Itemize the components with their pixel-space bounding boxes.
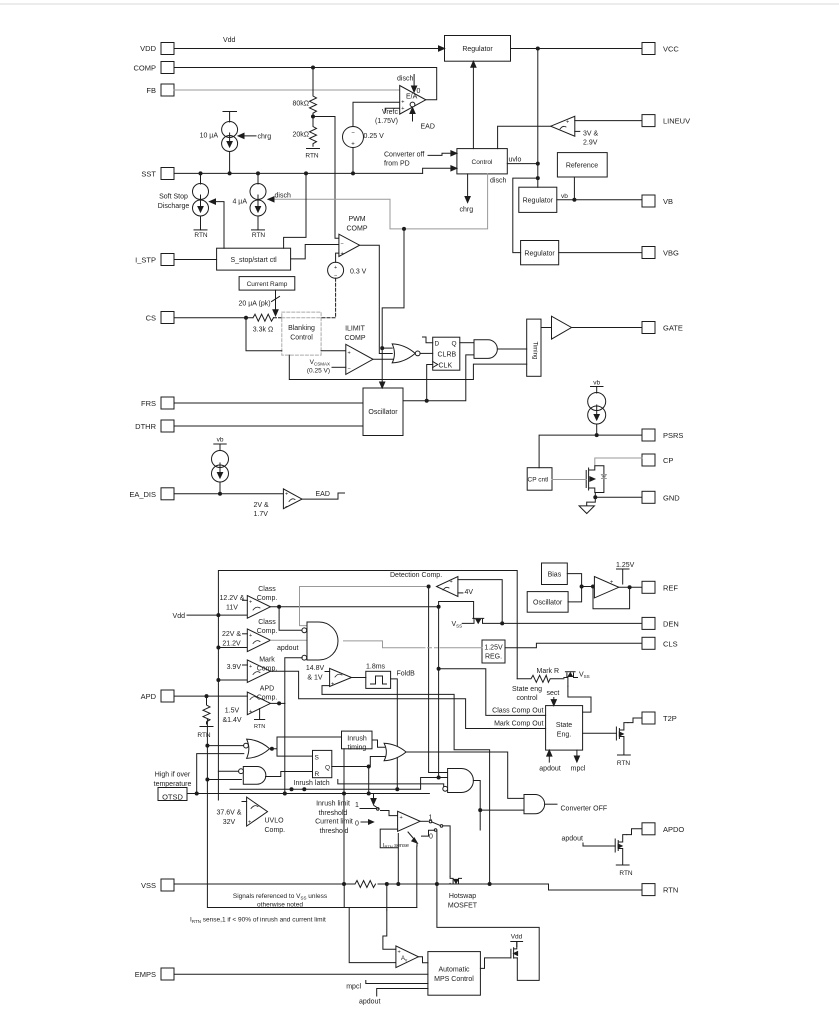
wire FB pin to E/A inverting input (gray) [174,89,403,91]
supply vb bar above PSRS source [591,387,604,394]
wire COMP net: pin to corner to E/A output [174,68,437,100]
svg-text:RTN: RTN [197,732,211,739]
pin RTN [642,884,655,896]
svg-text:4V: 4V [465,589,474,596]
wire rail to class comp 2 input [218,647,247,649]
svg-text:0.3 V: 0.3 V [350,269,367,276]
comparator Class Comp 1 [243,596,271,619]
wire switch to hotswap gate [443,826,450,877]
gate inrush AND B [239,767,266,785]
wire disch branch down to NOR and oscillator [380,229,404,388]
svg-text:Blanking: Blanking [288,325,315,332]
svg-text:VSS: VSS [141,881,156,890]
diode body (gray) [602,475,607,479]
node OTSD junction [195,792,371,796]
block S_stop/start ctl [217,248,291,270]
svg-text:+: + [249,633,252,639]
gate NOR (PWM/ILIMIT/disch) [392,344,420,363]
wire 0.25V bottom to SST line [352,148,354,174]
svg-text:Vrefc: Vrefc [382,109,399,116]
transistor APDO [615,835,629,865]
wire uvlo Control to internal rail [507,163,538,165]
svg-text:11V: 11V [226,605,238,612]
svg-text:COMP: COMP [134,64,157,73]
wire blanking bottom to timing path [289,355,526,379]
svg-text:Control: Control [290,335,313,342]
wire selected threshold to comparator [381,811,398,816]
node hotswap junction [488,882,492,886]
svg-text:mpcl: mpcl [571,766,586,773]
svg-text:+: + [249,709,252,715]
svg-text:+: + [566,120,569,126]
wire driver to GATE pin [572,327,643,329]
svg-text:VB: VB [663,197,673,206]
svg-text:Comp.: Comp. [257,595,278,602]
svg-text:Regulator: Regulator [462,46,493,53]
block Oscillator [363,388,403,436]
svg-text:Converter off: Converter off [384,152,424,159]
wire S_stop ctl to soft stop discharge arrow [210,199,225,248]
node REF input junctions [580,585,595,589]
wire rail to Regulator VBG [513,178,538,253]
comparator PWM COMP [339,234,360,257]
svg-text:VCC: VCC [663,45,679,54]
block State Eng [546,706,583,751]
wire threshold select arrow [371,794,379,809]
svg-text:OTSD: OTSD [162,793,183,802]
block Automatic MPS Control [428,952,481,996]
svg-text:CLK: CLK [439,362,453,369]
op-amp E/A [400,86,426,115]
pin CLS [642,637,655,649]
svg-text:Timing: Timing [532,342,538,360]
wire sect transistor to state eng [568,686,591,712]
pin GND [642,491,655,503]
pin APD [161,690,174,702]
svg-text:2.9V: 2.9V [583,140,598,147]
wire VCSMAX label tick to ILIMIT minus [332,366,346,368]
resistor Mark R [517,675,564,682]
svg-text:apdout: apdout [359,999,380,1006]
wire rail to mark comp input [218,679,247,681]
wire 3.3k to blanking control dashed [274,317,322,319]
block Oscillator2 wire to REF buffer [568,587,582,602]
wire chrg arrow below Control [465,174,470,203]
svg-text:+: + [400,815,403,821]
svg-text:Comp.: Comp. [265,827,286,834]
svg-text:COMP: COMP [347,226,368,233]
wire inrush latch Q to OR C [332,757,385,767]
svg-text:22V &: 22V & [222,631,241,638]
svg-text:UVLO: UVLO [265,818,285,825]
node rail junctions [536,162,540,181]
node Vdd rail junctions [216,613,220,682]
block Current Ramp [239,277,295,291]
wire divider mid to PWM comp inverting input [313,117,339,239]
svg-text:1.25V: 1.25V [616,562,635,569]
wire row to AND D bubble [338,780,444,789]
svg-text:21.2V: 21.2V [222,641,241,648]
transistor CP mosfet [586,466,604,493]
svg-text:& 1V: & 1V [307,675,323,682]
voltage source 0.25V [343,127,364,148]
wire MPS sense input 1 [383,910,396,949]
wire PWM comp output down to NOR middle input [360,245,393,353]
wire class1 node down to AND gate [439,607,448,778]
wire class comp out to state eng [439,669,546,716]
pin VB [642,195,655,207]
node Q junction [367,765,371,769]
svg-text:S_stop/start ctl: S_stop/start ctl [230,257,277,264]
svg-text:APD: APD [260,686,274,693]
svg-text:+: + [285,492,288,498]
svg-text:from PD: from PD [384,161,410,168]
wire EA_DIS pin to comparator [174,493,283,495]
current source vb/PSRS [588,393,606,436]
svg-text:Current limit: Current limit [315,819,353,826]
svg-text:Mark: Mark [259,657,275,664]
svg-text:Q: Q [325,765,330,772]
node VSS junctions [342,882,439,886]
wire to REF amp [582,586,595,588]
svg-text:−: − [285,504,288,510]
svg-text:temperature: temperature [154,781,192,788]
wire Regulator VB to VB pin [557,199,642,201]
wire apdout label to APDO gate [583,843,615,846]
current source EA_DIS pullup [212,451,229,494]
node oscillator/CLK junction [425,399,429,403]
svg-text:Vdd: Vdd [511,934,523,941]
svg-text:disch: disch [275,193,291,200]
svg-text:chrg: chrg [258,134,272,141]
transistor Vss detection switch [462,618,502,623]
wire DTHR to oscillator [174,425,363,427]
node GND junction [593,495,597,499]
node APD junction [205,694,209,698]
pin FB [161,84,174,96]
svg-text:sect: sect [547,690,560,697]
wire Blanking Control to ILIMIT comp plus [321,350,346,352]
block Regulator U1 [445,36,511,62]
wire SST line [174,172,423,174]
wire left rail 2 down to note line [207,720,416,908]
wire AND D node down [479,810,481,830]
svg-text:Vdd: Vdd [173,613,186,620]
wire OR C output to converter off gate [406,752,524,798]
wire EAD output [302,493,345,499]
wire current limit 0 leg to VSS [436,831,438,884]
svg-text:+: + [341,251,344,257]
wire AND D output down to converter off [473,781,524,811]
svg-text:EAD: EAD [421,124,435,131]
resistor 3.3k [253,314,273,321]
block Oscillator 2 [527,592,568,613]
svg-text:Eng.: Eng. [557,732,571,739]
svg-text:Bias: Bias [548,572,562,579]
wire 0.25V top to E/A plus input [353,102,400,126]
svg-text:IRTN sense,1 if < 90% of inrus: IRTN sense,1 if < 90% of inrush and curr… [190,917,326,925]
node junction VCC/internal rail [536,47,540,51]
latch D/CLRB/CLK [433,337,460,370]
svg-text:APD: APD [141,692,157,701]
svg-text:CLS: CLS [663,639,678,648]
node PSRS junction [595,433,599,437]
svg-text:Converter OFF: Converter OFF [561,806,608,813]
svg-text:FRS: FRS [141,399,156,408]
node AND D out junction [478,808,482,812]
svg-text:APDO: APDO [663,825,684,834]
wire current limit 0 line [361,820,374,824]
svg-text:+: + [334,265,337,271]
svg-text:+: + [610,580,613,586]
svg-text:Regulator: Regulator [523,198,554,205]
block Control [457,149,507,174]
comparator APD Comp [247,692,270,715]
pin VSS [161,879,174,891]
svg-text:vb: vb [561,193,568,200]
comparator UVLO [242,797,268,826]
wire APD pin to APD comp [174,695,247,697]
pin GATE [642,322,655,334]
wire disch arrow into E/A top [412,75,417,93]
svg-text:+: + [351,142,355,148]
node rail2 junctions [205,744,209,782]
svg-text:control: control [516,695,537,702]
svg-text:1: 1 [429,815,433,822]
svg-text:Control: Control [472,159,494,166]
svg-text:+: + [450,579,453,585]
wire converter off output [545,803,557,805]
svg-text:FB: FB [146,86,156,95]
wire REF amp to REF pin [619,586,642,588]
ENDSTOP [129,37,690,979]
ground symbol [579,497,595,513]
node class1/row junction [437,776,441,780]
svg-text:FoldB: FoldB [397,671,416,678]
op-amp REF buffer [594,577,618,598]
node disch/NOR junction [380,346,384,350]
wire switch 0 tick [422,829,437,836]
page top border [0,3,839,5]
wire state eng to T2P transistor gate [583,732,617,734]
wire SST to Control input arrow [423,166,457,174]
gate class AND (4 input) [302,622,338,660]
svg-text:+: + [249,600,252,606]
pin DTHR [161,420,174,432]
svg-text:10 µA: 10 µA [200,133,219,140]
wire Reference to vb node [573,177,575,200]
buffer gate driver [552,316,572,339]
wire apdout input [377,989,428,997]
svg-text:Mark R: Mark R [537,668,560,675]
svg-text:CP cntl: CP cntl [528,477,549,484]
supply vb bar above EA_DIS source [214,444,226,451]
wire 3V threshold tick [575,130,580,132]
svg-text:4 µA: 4 µA [232,199,247,206]
svg-text:apdout: apdout [562,836,583,843]
wire PSRS net [539,435,642,468]
svg-text:GND: GND [663,493,680,502]
svg-text:Comp.: Comp. [257,695,278,702]
wire T2P drain to T2P pin [628,718,642,723]
svg-text:1.25V: 1.25V [484,645,503,652]
wire inrush timing to OR C [372,740,385,747]
pin EMPS [161,968,174,980]
wire Av output to MPS control [418,957,428,963]
svg-text:timing: timing [348,745,367,752]
node OR A output [270,747,274,751]
wire Current Ramp arrow to CS [272,290,280,316]
svg-text:D: D [435,341,440,348]
current source 4uA disch [250,173,266,230]
wire detection comp output to class gate (gray) [300,587,429,626]
wire MPS loop from VSS to Vdd switch source [437,884,539,980]
wire APD comp output [270,702,284,704]
resistor VSS sense [355,881,375,888]
ground RTN below APD comp [255,709,265,720]
comparator LINEUV [551,116,575,136]
gate AND D [443,769,474,793]
wire detection plus input to Vss switch [458,580,502,624]
svg-text:Detection Comp.: Detection Comp. [390,572,442,579]
svg-text:37.6V &: 37.6V & [217,810,242,817]
svg-text:20 µA (pk): 20 µA (pk) [239,301,271,308]
svg-text:VDD: VDD [140,44,156,53]
svg-text:IRTN sense: IRTN sense [383,843,409,849]
block Bias [542,563,568,585]
wire Timing to gate driver [541,327,552,329]
wire OR A to latch S [277,749,313,756]
svg-text:Class: Class [258,586,276,593]
voltage source 0.3V [328,262,344,279]
pin EA_DIS [161,488,174,500]
wire class1 node to Vss switch gate [439,602,474,619]
node FoldB junction [395,787,399,791]
wire AND B output to inrush latch R [266,772,313,777]
svg-text:Class Comp Out: Class Comp Out [492,707,543,714]
svg-text:(0.25 V): (0.25 V) [307,368,330,375]
pin SST [161,168,174,180]
svg-text:State eng: State eng [512,686,542,693]
svg-text:0: 0 [355,821,359,828]
wire MPS control to Vdd switch gate [480,958,511,969]
svg-text:Hotswap: Hotswap [449,893,476,900]
svg-text:EMPS: EMPS [135,970,156,979]
svg-text:apdout: apdout [277,645,298,652]
transistor Hotswap MOSFET [450,876,461,884]
node SST junctions [199,171,356,175]
svg-text:Regulator: Regulator [524,251,555,258]
gate Converter OFF AND [524,795,545,814]
wire Regulator to VCC pin [511,48,643,50]
transistor T2P [616,723,630,755]
svg-text:12.2V &: 12.2V & [220,595,245,602]
resistor 80k [310,68,317,117]
svg-text:Inrush limit: Inrush limit [316,801,350,808]
wire LINEUV pin to comparator [575,120,642,122]
svg-text:vb: vb [217,437,224,444]
svg-text:DEN: DEN [663,619,679,628]
wire to converter off rail [322,694,490,884]
wire sense riser [416,846,418,908]
wire FoldB output down [391,679,398,789]
wire Converter off from PD arrow into Control [428,151,457,156]
wire Vdd VDD pin to Regulator with arrow [174,46,445,51]
svg-text:I_STP: I_STP [135,256,156,265]
wire 1.25V REG to CLS pin [505,643,642,647]
svg-text:CLRB: CLRB [438,352,457,359]
wire OR A output to inrush timing input [272,737,342,749]
node row Q dots [290,787,307,791]
pin VCC [642,43,655,55]
node CS junction [244,316,248,320]
svg-text:uvlo: uvlo [509,157,522,164]
block Inrush timing [342,731,373,749]
block Reference [557,153,607,177]
wire mpcl arrow down from state eng [574,750,579,762]
wire foldb comp to 1.8ms [352,677,366,679]
svg-text:+: + [401,100,404,106]
wire Control up-arrow to Regulator [471,61,476,148]
wire LINEUV comparator output to Control [498,126,551,148]
wire FRS to oscillator [174,402,363,404]
comparator Class Comp 2 [243,629,271,652]
svg-text:Inrush latch: Inrush latch [294,780,330,787]
supply Vdd bar MPS [511,942,523,947]
comparator EA_DIS 2V/1.7V [283,489,302,510]
svg-text:RTN: RTN [194,232,208,239]
wire comparator reference leg down [397,834,399,885]
svg-text:+: + [249,664,252,670]
svg-text:SST: SST [141,170,156,179]
wire apdout arrow up into state eng [547,750,552,762]
node divider midpoint [311,115,315,119]
wire S_stop ctl to PWM comp input [291,245,339,259]
gate OR C [384,743,406,760]
wire NOR output to latch CLRB [420,352,433,354]
svg-text:32V: 32V [223,819,236,826]
svg-text:Soft Stop: Soft Stop [159,194,188,201]
svg-text:20kΩ: 20kΩ [292,132,309,139]
block 1.8ms one-shot [366,671,391,688]
gate inrush OR A [244,739,270,758]
block Regulator VBG [521,241,559,265]
comparator ILIMIT COMP [346,344,373,374]
wire class1 to class gate bubble input [279,607,302,631]
block 1.25V REG [482,640,505,663]
svg-text:PSRS: PSRS [663,431,683,440]
svg-text:ILIMIT: ILIMIT [345,326,366,333]
svg-text:Discharge: Discharge [158,203,190,210]
node junction COMP/80k divider [311,66,315,70]
svg-text:T2P: T2P [663,714,677,723]
pin REF [642,581,655,593]
wire internal rail VCC to Regulator VB [537,49,539,188]
node REF output junction [628,585,632,589]
svg-text:High if over: High if over [155,772,191,779]
svg-text:threshold: threshold [320,828,349,835]
svg-text:−: − [341,242,344,248]
svg-text:1.8ms: 1.8ms [366,664,386,671]
wire row to AND D second input [230,778,448,790]
svg-text:R: R [315,771,320,778]
wire detection output down to AND gate [429,587,448,773]
comparator 14.8V FoldB [325,668,352,687]
block Regulator VB [519,187,557,212]
svg-text:Inrush: Inrush [347,736,367,743]
resistor 20k [310,117,317,147]
wire chrg arrow into 10uA source [238,133,256,138]
